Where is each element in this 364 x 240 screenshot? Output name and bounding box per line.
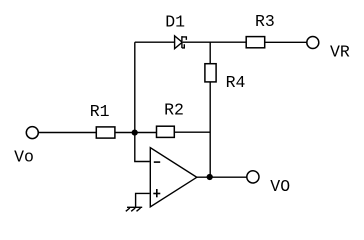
svg-text:VO: VO <box>270 177 290 196</box>
svg-text:R3: R3 <box>255 12 275 31</box>
diode D1 (triangle) <box>175 36 183 49</box>
wire R2 to right column <box>174 131 210 133</box>
node B (output junction dot) <box>207 174 213 180</box>
wire Vo to R1 <box>39 132 96 134</box>
wire R1 to node A <box>115 132 135 134</box>
resistor R3 <box>246 37 265 48</box>
svg-text:R1: R1 <box>90 102 110 121</box>
terminal VO (open circle) <box>247 171 259 183</box>
diode D1 bottom hook <box>182 44 184 48</box>
wire node A down to inverting input <box>135 133 150 162</box>
wire op-amp output to terminal VO <box>197 176 247 178</box>
wire non-inverting input to ground <box>136 193 150 207</box>
svg-text:Vo: Vo <box>14 148 34 167</box>
svg-text:R2: R2 <box>164 100 184 119</box>
svg-text:R4: R4 <box>226 73 246 92</box>
terminal Vo (input, open circle) <box>26 127 38 139</box>
resistor R2 <box>157 126 175 137</box>
ground <box>127 206 142 208</box>
wire node A to R2 <box>135 132 157 134</box>
svg-text:D1: D1 <box>165 12 185 31</box>
op-amp minus sign <box>154 161 160 163</box>
resistor R1 <box>96 127 115 138</box>
op-amp U1 (triangle) <box>150 148 197 207</box>
wire diode cathode to R3 <box>183 41 246 43</box>
terminal VR (open circle) <box>307 37 319 49</box>
svg-text:VR: VR <box>330 42 350 61</box>
wire R3 to terminal VR <box>265 41 307 43</box>
node A (junction dot) <box>132 130 138 136</box>
wire left feedback column (node A up to top wire) <box>134 42 136 132</box>
wire top horizontal to diode anode <box>135 41 175 43</box>
resistor R4 (vertical) <box>205 64 216 82</box>
wire top wire down to R4 <box>209 42 211 64</box>
op-amp plus sign <box>153 193 160 195</box>
wire R4 down to output node <box>209 82 211 177</box>
diode D1 top hook <box>182 37 186 40</box>
diode D1 cathode bar <box>181 36 183 48</box>
